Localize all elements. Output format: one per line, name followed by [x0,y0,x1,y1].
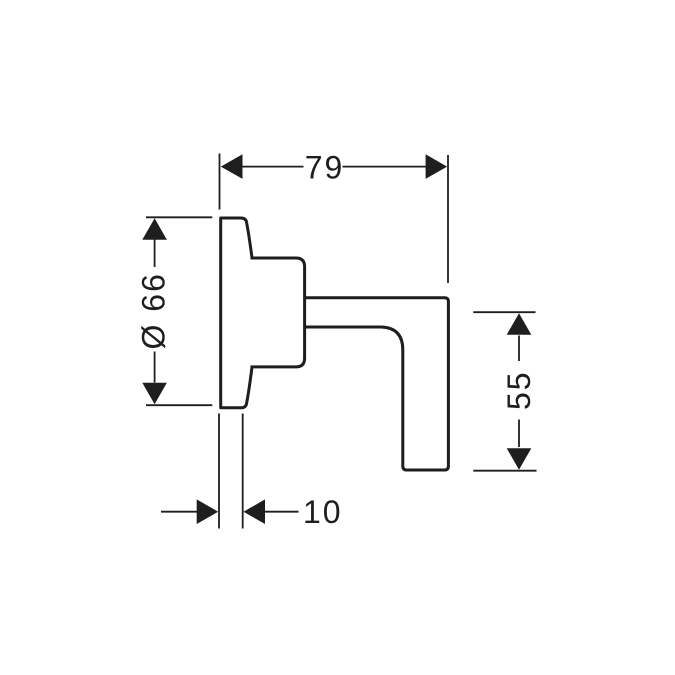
cartridge hub [251,258,305,367]
svg-text:79: 79 [305,149,345,185]
dia66 dim: bottom extension line [146,404,212,406]
lever handle [306,298,449,470]
10 dim: right leader line [265,511,299,513]
55 dim top arrowhead [507,313,532,335]
dia66 dim bottom arrowhead [142,383,167,405]
55 dim: top extension line [473,311,535,313]
svg-text:10: 10 [303,494,343,530]
79 dim line left segment [242,166,304,168]
55 dim bottom arrowhead [507,448,532,470]
79 dim: left extension line [219,154,221,210]
55 dim line upper segment [518,336,520,362]
10 dim left arrowhead [197,499,219,524]
dia66 dim top arrowhead [142,218,167,240]
10 dim: right extension line [242,414,244,529]
10 dim: left extension line [218,414,220,529]
dia66 dim: top extension line [146,216,212,218]
79 dim: right extension line [447,155,449,283]
79 dim left arrowhead [221,154,243,179]
svg-text:55: 55 [501,370,537,410]
svg-text:Ø 66: Ø 66 [136,272,172,349]
dia66 dim line upper segment [154,239,156,267]
79 dim right arrowhead [426,154,448,179]
10 dim right arrowhead [244,499,266,524]
10 dim: left leader line [161,511,198,513]
55 dim: bottom extension line [473,470,536,472]
55 dim line lower segment [518,420,520,448]
79 dim line right segment [343,166,427,168]
escutcheon plate (side profile) [221,218,252,408]
dia66 dim line lower segment [154,352,156,383]
